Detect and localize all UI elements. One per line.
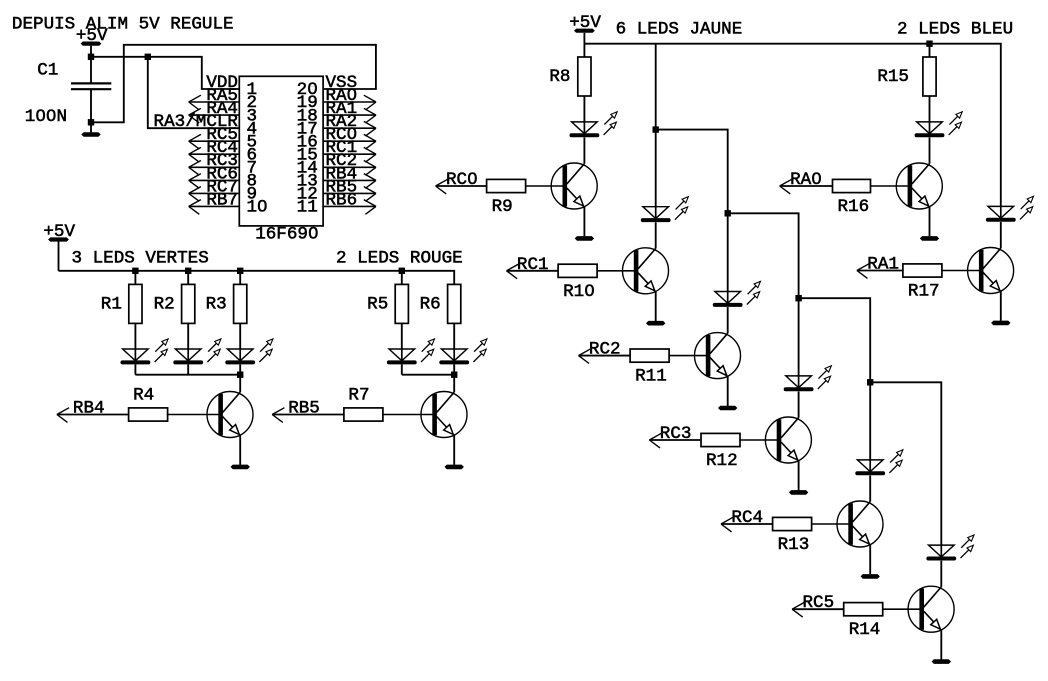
wire emitter to ground <box>798 460 800 490</box>
wire R9 to Q3 base <box>526 185 563 187</box>
net label RB5 <box>272 399 320 423</box>
svg-text:RC2: RC2 <box>589 340 621 360</box>
pin 16 RC0 (right) <box>297 125 376 152</box>
svg-text:RC4: RC4 <box>731 508 763 528</box>
wire R8 to LED <box>583 96 585 122</box>
wire R5 to LED <box>401 323 403 349</box>
pin 18 RA1 (right) <box>297 99 376 126</box>
net label RC2 <box>579 340 621 364</box>
LED D6 (yellow) <box>570 112 618 138</box>
wire Q2 emitter to ground <box>453 435 455 465</box>
wire D10 (yellow) to collector <box>869 476 871 502</box>
svg-text:RB4: RB4 <box>73 399 105 419</box>
net label RC4 <box>721 508 763 532</box>
svg-text:R12: R12 <box>706 451 738 471</box>
wire RC1 to R10 <box>507 270 559 272</box>
svg-text:R7: R7 <box>348 385 369 405</box>
pin 9 RC7 (left) <box>189 177 257 204</box>
net label RB4 <box>57 399 105 423</box>
wire R7 to Q2 base <box>382 414 433 416</box>
wire RA1 to R17 <box>857 270 903 272</box>
transistor Q4 (RC1 yellow driver) <box>623 248 669 294</box>
wire rail to R15 <box>929 44 931 57</box>
ground (Q2) <box>445 465 464 470</box>
wire D8 (yellow) to collector <box>727 307 729 333</box>
wire junction A to junction B to VDD corner <box>91 57 239 89</box>
svg-text:100N: 100N <box>25 107 67 127</box>
wire R14 to base <box>883 608 920 610</box>
wire emitter to ground <box>655 291 657 321</box>
wire D7 (yellow) to collector <box>655 222 657 248</box>
transistor Q3 (RC0 yellow driver) <box>551 163 597 209</box>
wire top rail to blue column 2 <box>584 44 1000 206</box>
junction B (MCLR tap) <box>145 54 151 60</box>
wire R13 to base <box>812 523 849 525</box>
wire RB5 to R7 <box>272 414 344 416</box>
LED D9 (yellow) <box>784 366 832 392</box>
pin 17 RA2 (right) <box>297 112 376 139</box>
resistor R13 <box>773 517 812 555</box>
svg-text:RC5: RC5 <box>803 593 835 613</box>
wire R12 to base <box>740 439 777 441</box>
svg-text:R6: R6 <box>420 294 441 314</box>
ground (Q8 (RC5 yellow driver)) <box>932 659 951 664</box>
junction rail/R3 <box>237 268 243 274</box>
transistor Q10 (RA1 blue driver) <box>968 248 1014 294</box>
svg-text:R1: R1 <box>101 294 122 314</box>
svg-text:RC3: RC3 <box>660 424 692 444</box>
transistor Q6 (RC3 yellow driver) <box>765 417 811 463</box>
svg-text:6 LEDS JAUNE: 6 LEDS JAUNE <box>616 20 743 40</box>
wire branch link to column 5 <box>799 298 871 460</box>
svg-text:R15: R15 <box>877 67 909 87</box>
wire D6 to Q3 collector <box>583 138 585 164</box>
ground (Q3) <box>575 236 594 241</box>
transistor Q2 (red driver) <box>421 392 467 438</box>
+5V power symbol (left LED rail) <box>43 222 75 242</box>
ground (C1 / VSS ground) <box>81 132 100 137</box>
net label RA1 <box>857 255 899 279</box>
svg-text:3 LEDS VERTES: 3 LEDS VERTES <box>72 249 209 269</box>
wire R16 to base <box>871 185 908 187</box>
svg-text:10: 10 <box>247 198 268 218</box>
wire RA0 to R16 <box>780 185 833 187</box>
svg-text:2 LEDS ROUGE: 2 LEDS ROUGE <box>336 249 463 269</box>
junction rail/R1 <box>132 268 138 274</box>
wire Q1 emitter to ground <box>239 435 241 465</box>
pin 7 RC3 (left) <box>189 151 257 178</box>
svg-text:2 LEDS BLEU: 2 LEDS BLEU <box>897 20 1013 40</box>
wire +5V to top rail <box>583 33 585 44</box>
wire R17 to base <box>942 270 979 272</box>
LED D2 (green) <box>173 339 221 365</box>
resistor R16 <box>833 179 871 217</box>
net label RA0 <box>780 170 822 194</box>
capacitor C1 100N <box>25 60 112 127</box>
wire branch link to column 4 <box>728 213 799 376</box>
wire D1 (green) to collector bus <box>134 364 136 374</box>
junction column 3 branch <box>725 210 731 216</box>
pin 12 RB5 (right) <box>297 177 376 204</box>
wire +5V to junction A <box>90 46 92 57</box>
resistor R7 <box>344 385 383 421</box>
resistor R11 <box>630 349 669 387</box>
wire rail down column 2 <box>655 44 657 207</box>
wire RC2 to R11 <box>579 355 631 357</box>
pin 13 RB4 (right) <box>297 164 376 191</box>
svg-text:RA1: RA1 <box>867 255 899 275</box>
ground (Q9) <box>920 236 939 241</box>
transistor Q8 (RC5 yellow driver) <box>908 586 954 632</box>
svg-text:R5: R5 <box>367 294 388 314</box>
wire R11 to base <box>669 355 706 357</box>
junction red cathodes <box>451 372 457 378</box>
resistor R14 <box>844 603 883 641</box>
wire branch link to column 3 <box>656 130 728 292</box>
svg-text:R9: R9 <box>492 197 513 217</box>
+5V power symbol (top left supply) <box>76 26 108 46</box>
svg-text:16F690: 16F690 <box>255 224 318 244</box>
wire rail to R3 <box>239 271 241 285</box>
pin 3 RA4 (left) <box>189 99 257 126</box>
resistor R5 <box>367 284 408 323</box>
junction rail/R2 <box>185 268 191 274</box>
+5V power symbol (right LED rail) <box>569 13 601 33</box>
svg-text:R8: R8 <box>549 67 570 87</box>
LED D7 (yellow) <box>641 197 689 223</box>
wire R15 to LED <box>929 96 931 122</box>
svg-text:RB5: RB5 <box>288 399 320 419</box>
wire red LED cathodes bus <box>402 374 454 376</box>
svg-text:RB7: RB7 <box>206 190 238 210</box>
junction A (+5V node) <box>88 54 94 60</box>
LED D12 (blue) <box>915 112 963 138</box>
net label RC5 <box>792 593 834 617</box>
wire D13 to collector <box>1000 222 1002 248</box>
transistor Q9 (RA0 blue driver) <box>896 163 942 209</box>
pin 10 RB7 (left) <box>189 190 268 217</box>
wire junction C to ground <box>90 122 92 132</box>
resistor R6 <box>420 284 461 323</box>
ground (Q1) <box>231 465 250 470</box>
LED D5 (red) <box>439 339 487 365</box>
pin 11 RB6 (right) <box>297 190 376 217</box>
transistor Q5 (RC2 yellow driver) <box>695 333 741 379</box>
resistor R1 <box>101 284 142 323</box>
wire rail to R5 <box>401 271 403 285</box>
svg-text:R4: R4 <box>133 385 154 405</box>
transistor Q7 (RC4 yellow driver) <box>837 501 883 547</box>
ground (Q7 (RC4 yellow driver)) <box>861 574 880 579</box>
junction rail/R15 <box>926 41 932 47</box>
pin 1 VDD (left) <box>206 73 257 100</box>
ground (Q10) <box>991 321 1010 326</box>
resistor R12 <box>701 433 740 471</box>
resistor R9 <box>487 179 526 217</box>
svg-text:R2: R2 <box>154 294 175 314</box>
junction green cathodes <box>237 372 243 378</box>
LED D13 (blue) <box>986 196 1034 222</box>
pin 8 RC6 (left) <box>189 164 257 191</box>
svg-text:DEPUIS ALIM 5V REGULE: DEPUIS ALIM 5V REGULE <box>12 15 234 35</box>
LED D1 (green) <box>121 339 169 365</box>
pin 5 RC5 (left) <box>189 125 257 152</box>
resistor R15 <box>877 57 936 96</box>
wire Q3 emitter to ground <box>583 206 585 236</box>
LED D8 (yellow) <box>713 281 761 307</box>
wire emitter to ground <box>940 629 942 659</box>
net label RC3 <box>649 424 691 448</box>
svg-text:R16: R16 <box>838 197 870 217</box>
wire D4 (red) to collector bus <box>401 364 403 374</box>
wire RC5 to R14 <box>792 608 844 610</box>
wire junction B down to RA3/MCLR pin <box>148 57 240 128</box>
LED D3 (green) <box>225 339 273 365</box>
wire junction A down to C1 top plate <box>90 57 92 83</box>
ground (Q6 (RC3 yellow driver)) <box>789 490 808 495</box>
LED D4 (red) <box>387 339 435 365</box>
wire RC0 to R9 <box>436 185 487 187</box>
resistor R8 <box>549 57 591 96</box>
ground (Q5 (RC2 yellow driver)) <box>718 406 737 411</box>
resistor R4 <box>129 385 168 421</box>
pin 20 VSS (right) <box>297 73 358 100</box>
wire emitter to ground <box>869 544 871 574</box>
wire RC4 to R13 <box>721 523 773 525</box>
LED D10 (yellow) <box>855 450 903 476</box>
wire D12 to collector <box>929 138 931 164</box>
wire rail to R2 <box>187 271 189 285</box>
resistor R3 <box>206 284 247 323</box>
wire D9 (yellow) to collector <box>798 392 800 418</box>
wire emitter to ground <box>929 206 931 236</box>
svg-text:R11: R11 <box>635 367 667 387</box>
pin 4 RA3/MCLR (left) <box>154 112 258 139</box>
wire R4 to Q1 base <box>167 414 219 416</box>
wire branch link to column 6 <box>870 382 941 545</box>
wire emitter to ground <box>727 376 729 406</box>
wire rail to R8 <box>583 44 585 57</box>
wire R3 to LED <box>239 323 241 349</box>
ground (Q4 (RC1 yellow driver)) <box>646 321 665 326</box>
wire emitter to ground <box>1000 291 1002 321</box>
wire green LED cathodes bus <box>135 374 240 376</box>
svg-text:R13: R13 <box>778 535 810 555</box>
wire +5V down to left rail <box>58 242 60 271</box>
pin 14 RC2 (right) <box>297 151 376 178</box>
wire R6 to LED <box>453 323 455 349</box>
wire C1 bottom plate to junction C <box>90 89 92 122</box>
wire D5 (red) to collector bus <box>453 364 455 374</box>
wire R1 to LED <box>134 323 136 349</box>
IC U1 16F690 body <box>239 76 323 244</box>
wire D3 (green) to collector bus <box>239 364 241 374</box>
pin 19 RA0 (right) <box>297 86 376 113</box>
resistor R2 <box>154 284 195 323</box>
svg-text:11: 11 <box>297 198 318 218</box>
wire RC3 to R12 <box>649 439 701 441</box>
net label RC0 <box>436 170 478 194</box>
wire RB4 to R4 <box>57 414 129 416</box>
wire left +5V rail <box>59 271 455 285</box>
resistor R17 <box>903 264 942 302</box>
LED D11 (yellow) <box>926 535 974 561</box>
pin 6 RC4 (left) <box>189 138 257 165</box>
wire green bus to Q1 collector <box>239 375 241 393</box>
junction column 2 branch <box>653 126 659 132</box>
svg-text:R14: R14 <box>849 620 881 640</box>
resistor R10 <box>558 264 597 302</box>
wire red bus to Q2 collector <box>453 375 455 393</box>
transistor Q1 (green driver) <box>207 392 253 438</box>
pin 15 RC1 (right) <box>297 138 376 165</box>
wire junction C around to VSS pin 20 <box>91 45 376 123</box>
wire D2 (green) to collector bus <box>187 364 189 374</box>
wire rail to R1 <box>134 271 136 285</box>
junction C (ground node) <box>88 119 94 125</box>
wire R2 to LED <box>187 323 189 349</box>
junction column 5 branch <box>867 379 873 385</box>
net label RC1 <box>507 255 549 279</box>
junction rail/R5 <box>399 268 405 274</box>
pin 2 RA5 (left) <box>189 86 257 113</box>
svg-text:RC1: RC1 <box>517 255 549 275</box>
svg-text:C1: C1 <box>37 60 58 80</box>
svg-text:R17: R17 <box>908 282 940 302</box>
wire D11 (yellow) to collector <box>940 561 942 587</box>
svg-text:R3: R3 <box>206 294 227 314</box>
wire R10 to base <box>597 270 634 272</box>
svg-text:RB6: RB6 <box>326 190 358 210</box>
junction column 4 branch <box>795 295 801 301</box>
